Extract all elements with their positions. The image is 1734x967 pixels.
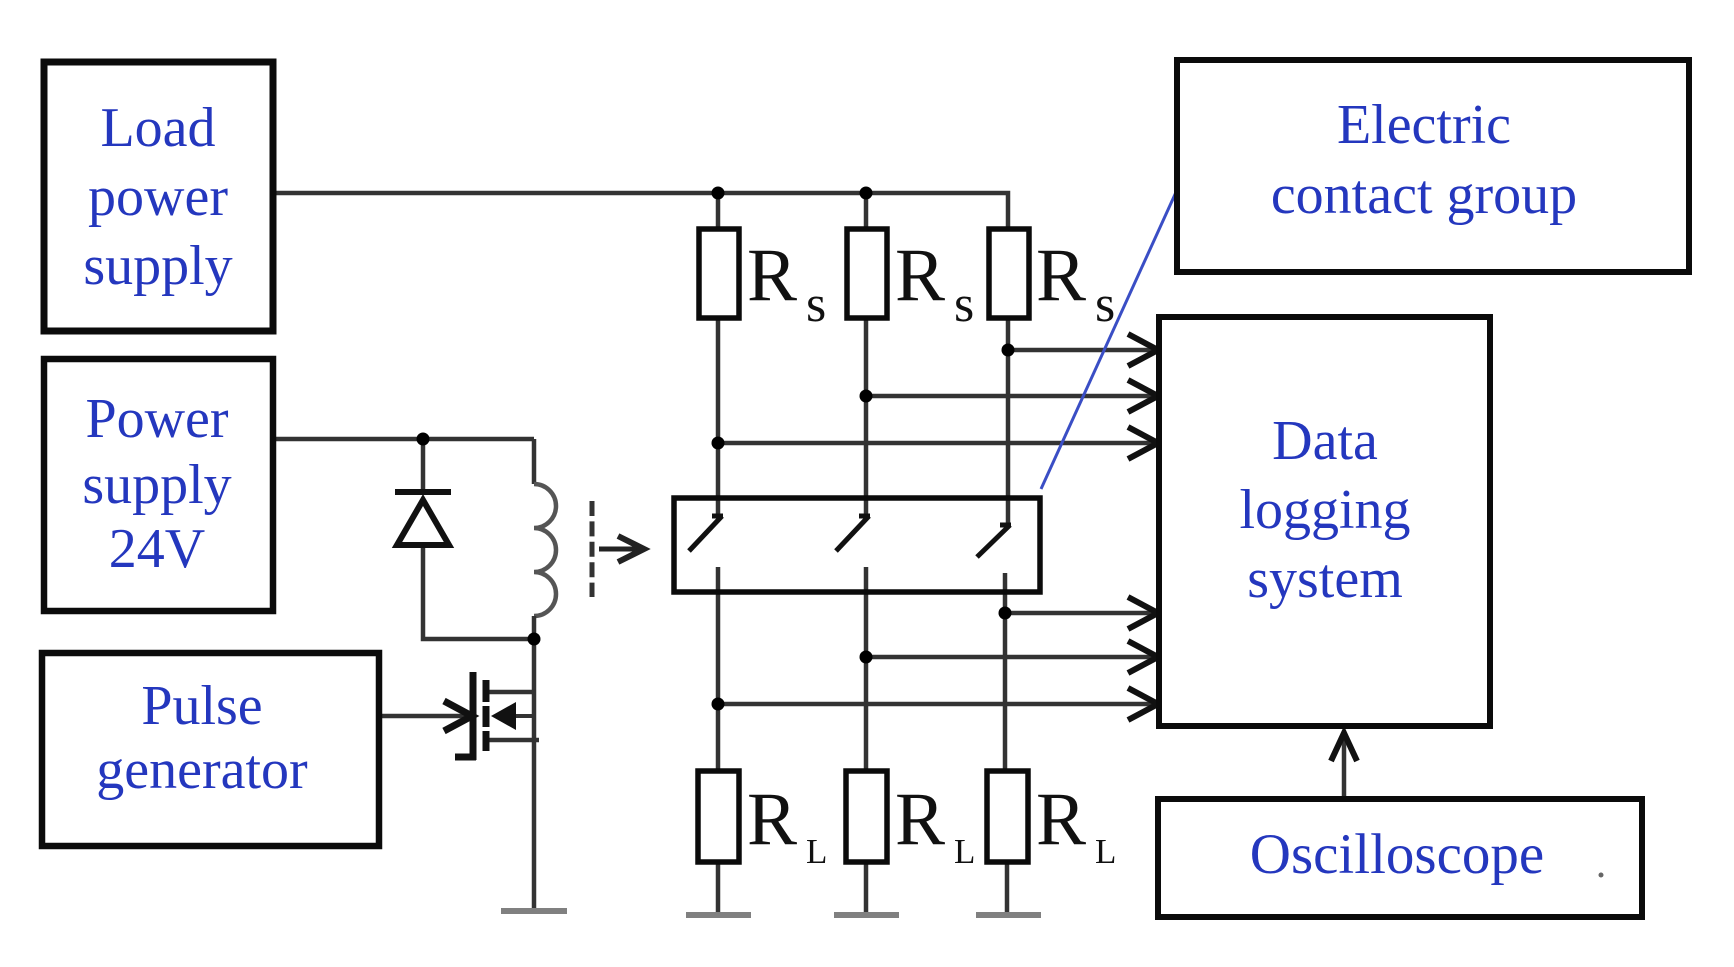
svg-text:logging: logging [1239,479,1410,541]
svg-text:24V: 24V [109,518,205,580]
svg-text:Power: Power [85,388,228,450]
svg-text:power: power [88,166,228,228]
svg-text:contact group: contact group [1271,164,1577,226]
svg-text:generator: generator [96,739,308,801]
svg-text:system: system [1247,548,1403,610]
svg-text:Data: Data [1272,410,1378,472]
svg-text:Oscilloscope: Oscilloscope [1250,823,1544,886]
svg-text:Pulse: Pulse [141,675,262,737]
svg-text:supply: supply [82,454,231,516]
svg-text:Electric: Electric [1337,94,1511,156]
svg-text:Load: Load [100,97,215,159]
svg-text:supply: supply [83,235,232,297]
